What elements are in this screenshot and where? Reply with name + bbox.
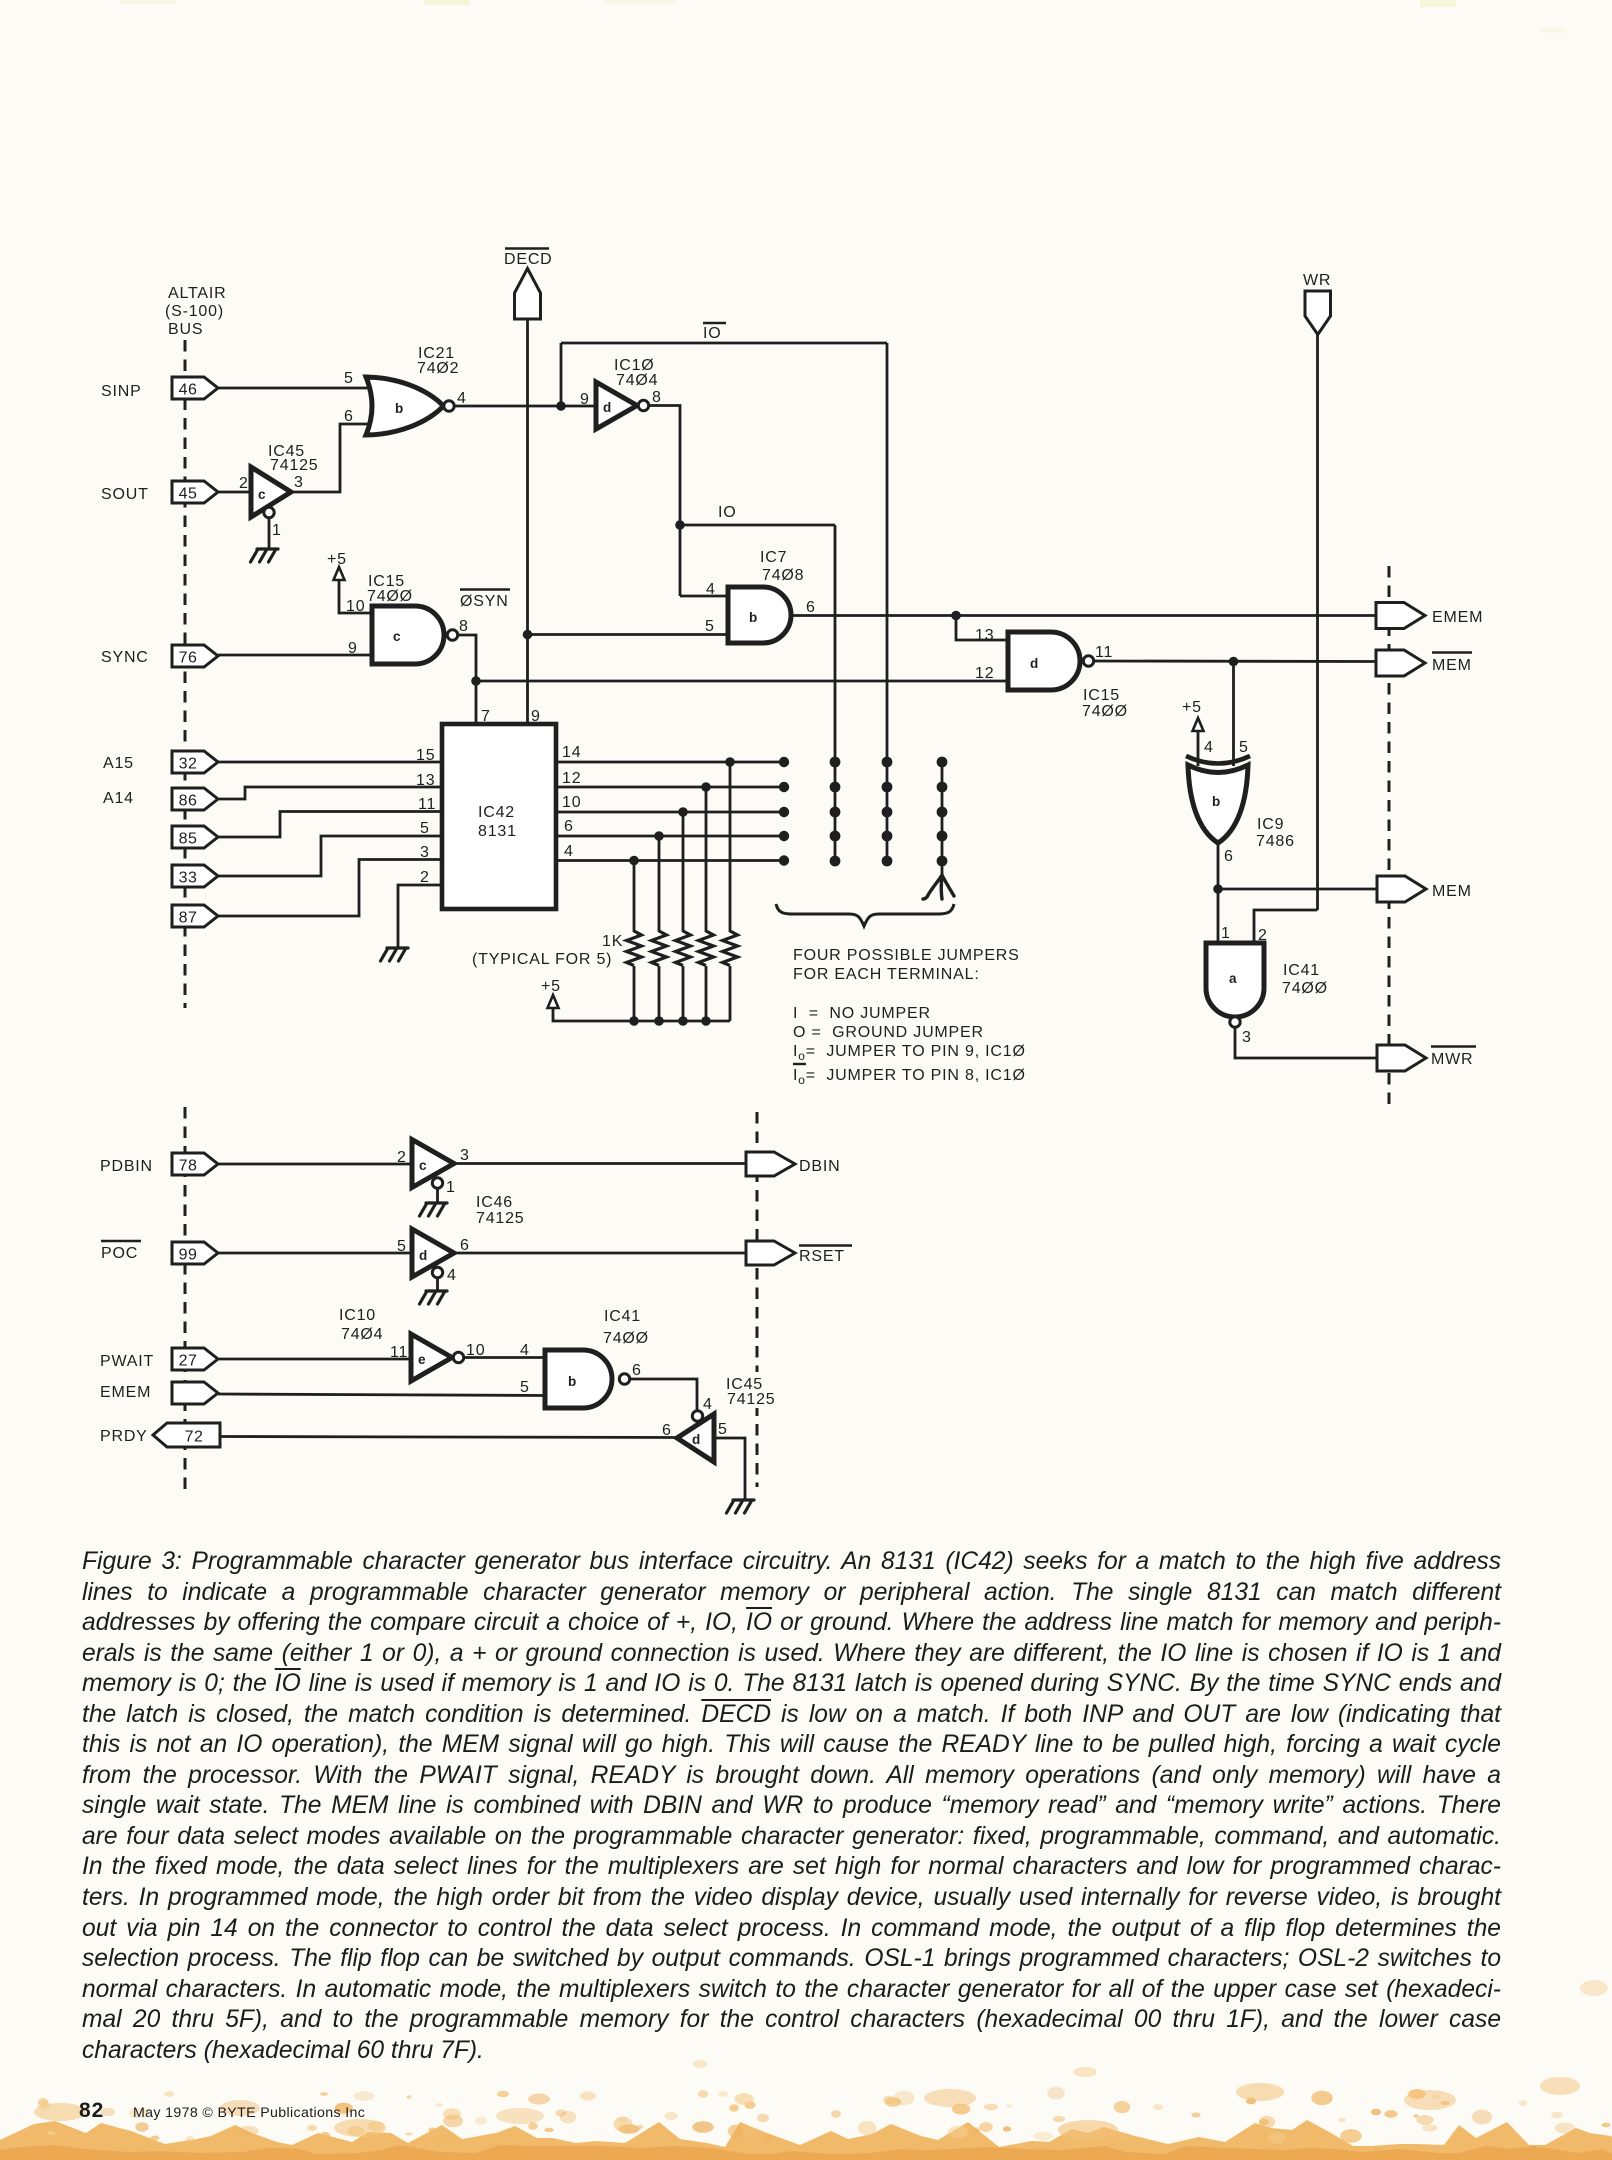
svg-text:d: d [419, 1248, 427, 1263]
svg-text:8131: 8131 [478, 823, 517, 840]
IC15d pin 11 label [1095, 644, 1113, 661]
svg-text:IC42: IC42 [478, 804, 515, 821]
IC41a pin 3 label [1242, 1029, 1252, 1046]
svg-text:74Ø2: 74Ø2 [417, 360, 459, 377]
svg-text:74Ø8: 74Ø8 [762, 567, 804, 584]
svg-text:BUS: BUS [168, 321, 203, 338]
IC46c pin 1 label [446, 1179, 456, 1196]
svg-text:6: 6 [632, 1362, 642, 1379]
IC42 pin 13 label [416, 772, 435, 789]
svg-text:45: 45 [179, 486, 198, 503]
svg-text:PWAIT: PWAIT [100, 1353, 154, 1370]
node IO-bar label [703, 323, 726, 342]
wire R5 lower lead [729, 966, 732, 1021]
IC15c pin 10 label [346, 598, 365, 615]
svg-text:4: 4 [564, 843, 574, 860]
node +5 label (IC9) [1182, 699, 1202, 716]
svg-text:MEM: MEM [1432, 657, 1472, 674]
junction MEM node [1213, 884, 1223, 894]
node jumper legend I [793, 1005, 931, 1022]
ground fork (jumper column) [923, 875, 954, 899]
wire R1 riser [633, 861, 636, 933]
node IO label [718, 504, 737, 521]
ground under 8131 pin2 [381, 948, 409, 961]
IC41b label [603, 1308, 649, 1347]
svg-text:WR: WR [1303, 272, 1331, 289]
junction OSYN node [471, 676, 481, 686]
svg-text:6: 6 [460, 1237, 470, 1254]
svg-text:4: 4 [703, 1396, 713, 1413]
wire PWAIT to IC10e [218, 1358, 412, 1361]
node OSYN-bar label [460, 590, 510, 611]
junction R1 top [629, 856, 639, 866]
svg-text:3: 3 [460, 1147, 470, 1164]
wire EMEM line (IC7 out) [791, 614, 1376, 617]
resistor R4 1K [699, 931, 714, 966]
junction R3 top [678, 807, 688, 817]
wire 87 to 8131 pin3 [218, 860, 444, 917]
svg-text:5: 5 [420, 820, 430, 837]
IC15d pin 12 label [975, 665, 994, 682]
junction R4 top [701, 782, 711, 792]
svg-text:IC41: IC41 [604, 1308, 641, 1325]
IC45d enable bubble [692, 1411, 702, 1421]
svg-text:+5: +5 [1182, 699, 1202, 716]
svg-text:IC46: IC46 [476, 1194, 513, 1211]
svg-text:8: 8 [459, 618, 469, 635]
IC42 pin 4 label [564, 843, 574, 860]
IC21 pin 5 label [344, 370, 354, 387]
connector EMEM output [1376, 603, 1425, 629]
svg-text:8: 8 [652, 389, 662, 406]
node A15 label [103, 755, 134, 772]
svg-text:5: 5 [705, 618, 715, 635]
svg-text:74Ø4: 74Ø4 [341, 1326, 383, 1343]
IC21 pin 4 label [457, 390, 467, 407]
power +5 arrow (IC9) [1193, 718, 1204, 731]
terminal 99 (POC) [172, 1242, 218, 1264]
wire R3 lower lead [682, 966, 685, 1021]
junction pin10 end dot [779, 807, 789, 817]
ground under IC46c [420, 1203, 448, 1216]
svg-text:PRDY: PRDY [100, 1428, 148, 1445]
IC9 pin 5 label [1239, 739, 1249, 756]
wire MEM-bar branch to IC9 pin5 [1232, 662, 1235, 767]
nand-gate U-IC15d 7400 [1008, 632, 1080, 690]
wire to IC7 pin4 [680, 595, 729, 598]
svg-text:5: 5 [520, 1379, 530, 1396]
wire A15 to 8131 pin15 [218, 761, 444, 764]
svg-text:5: 5 [344, 370, 354, 387]
junction pin4 end dot [779, 855, 789, 865]
svg-text:5: 5 [718, 1421, 728, 1438]
svg-text:2: 2 [397, 1149, 407, 1166]
svg-text:DBIN: DBIN [799, 1158, 840, 1175]
node jumper legend O [793, 1024, 984, 1041]
IC9 label [1256, 816, 1295, 850]
wire +5 to IC15c pin10 [339, 580, 373, 613]
wire 8131 pin4 line [556, 859, 784, 862]
svg-text:SINP: SINP [101, 383, 142, 400]
svg-text:PDBIN: PDBIN [100, 1158, 153, 1175]
node MWR output label [1431, 1047, 1476, 1069]
IC46d pin 6 label [460, 1237, 470, 1254]
svg-text:13: 13 [416, 772, 435, 789]
svg-text:27: 27 [179, 1353, 198, 1370]
IC42 pin 12 label [562, 770, 581, 787]
buffer U-IC45c 74125 [251, 467, 291, 517]
wire jumper column IO dots [830, 757, 841, 867]
svg-text:e: e [418, 1352, 426, 1367]
svg-text:86: 86 [179, 793, 198, 810]
power +5 arrow (IC15c) [334, 567, 345, 580]
node 1K value label [602, 933, 623, 950]
svg-text:33: 33 [179, 870, 198, 887]
wire EMEM branch to IC15d pin13 [956, 616, 1009, 641]
IC42 pin 5 label [420, 820, 430, 837]
IC45d pin 4 label [703, 1396, 713, 1413]
junction MEM-bar to IC9 pin5 [1229, 657, 1239, 667]
svg-text:74ØØ: 74ØØ [1082, 703, 1128, 720]
wire IC45c output to IC21 pin6 [291, 424, 371, 492]
svg-text:74125: 74125 [270, 457, 319, 474]
IC42 pin 7 label [481, 708, 491, 725]
svg-text:4: 4 [457, 390, 467, 407]
wire 8131 pin14 line [556, 761, 784, 764]
svg-text:74125: 74125 [727, 1391, 776, 1408]
wire 8131 pin10 line [556, 811, 784, 814]
svg-text:A15: A15 [103, 755, 134, 772]
IC41a pin 1 label [1221, 925, 1231, 942]
node DECD label [504, 249, 553, 269]
svg-text:MEM: MEM [1432, 883, 1472, 900]
wire OSYN to 8131 pin7 [475, 681, 478, 724]
node SOUT label [101, 486, 149, 503]
buffer U-IC46d 74125 [412, 1229, 454, 1277]
connector MWR output [1377, 1045, 1426, 1071]
svg-text:b: b [1212, 794, 1220, 809]
inverter U-IC10e 7404 [411, 1334, 452, 1381]
IC42 pin 2 label [420, 869, 430, 886]
svg-text:2: 2 [1258, 927, 1268, 944]
connector MEM-bar output [1376, 650, 1425, 676]
svg-text:(TYPICAL FOR 5): (TYPICAL FOR 5) [472, 951, 612, 968]
node +5 label (pullups) [541, 978, 561, 995]
resistor R1 1K [627, 931, 642, 966]
wire IC41a output to MWR [1235, 1028, 1377, 1059]
junction pin6 end dot [779, 831, 789, 841]
IC42 pin 6 label [564, 818, 574, 835]
svg-text:d: d [692, 1432, 700, 1447]
junction pin14 end dot [779, 757, 789, 767]
wire PDBIN to IC46c [218, 1163, 413, 1166]
junction rail R4 [701, 1016, 711, 1026]
svg-text:1: 1 [272, 522, 282, 539]
svg-text:1: 1 [446, 1179, 456, 1196]
svg-text:ØSYN: ØSYN [460, 593, 509, 610]
wire R5 riser [729, 762, 732, 932]
wire IC45d output to ground [714, 1438, 745, 1500]
and-gate U-IC7b 7408 [728, 587, 791, 643]
brace four jumpers [776, 904, 954, 926]
svg-text:6: 6 [344, 408, 354, 425]
buffer U-IC46c 74125 [412, 1140, 454, 1188]
junction R2 top [654, 831, 664, 841]
node EMEM input label [100, 1384, 151, 1401]
wire IO horizontal [680, 524, 835, 527]
svg-text:85: 85 [179, 831, 198, 848]
wire jumper column ground dots [937, 757, 948, 867]
svg-text:2: 2 [420, 869, 430, 886]
wire IC45c enable to ground [268, 518, 271, 550]
svg-text:4: 4 [520, 1342, 530, 1359]
wire bus dashed boundary lower-left [184, 1107, 187, 1489]
IC45d pin 5 label [718, 1421, 728, 1438]
ground under IC46d [420, 1291, 448, 1304]
svg-text:74ØØ: 74ØØ [1282, 980, 1328, 997]
IC10e pin 11 label [390, 1344, 408, 1361]
ground under IC45d [727, 1500, 755, 1513]
wire POC to IC46d [218, 1252, 413, 1255]
svg-text:9: 9 [348, 640, 358, 657]
ground under IC45c [251, 549, 279, 562]
wire SOUT to IC45c input [218, 491, 252, 494]
svg-text:14: 14 [562, 744, 581, 761]
IC15d output bubble [1083, 656, 1093, 666]
IC15d pin 13 label [975, 627, 994, 644]
nand-gate U-IC41a 7400 [1206, 943, 1264, 1017]
svg-text:3: 3 [420, 844, 430, 861]
IC46d enable bubble [432, 1267, 442, 1277]
comparator U-IC42 8131 [442, 724, 556, 909]
svg-text:4: 4 [447, 1267, 457, 1284]
connector DBIN output [746, 1152, 795, 1176]
IC9 pin 4 label [1204, 739, 1214, 756]
node TYPICAL FOR 5 label [472, 951, 612, 968]
svg-text:15: 15 [416, 747, 435, 764]
svg-text:4: 4 [1204, 739, 1214, 756]
svg-text:99: 99 [179, 1247, 198, 1264]
terminal 85 [172, 826, 218, 848]
svg-text:11: 11 [418, 796, 436, 813]
junction rail R3 [678, 1016, 688, 1026]
svg-text:c: c [419, 1158, 427, 1173]
svg-text:6: 6 [564, 818, 574, 835]
terminal 45 (SOUT) [172, 481, 218, 503]
terminal 72 (PRDY) [153, 1423, 220, 1447]
IC10d label [614, 357, 658, 389]
IC10 label (lower) [339, 1307, 383, 1343]
svg-text:74ØØ: 74ØØ [603, 1330, 649, 1347]
svg-text:POC: POC [101, 1245, 138, 1262]
svg-text:78: 78 [179, 1158, 198, 1175]
wire DECD vertical to 8131 pin9 [526, 319, 529, 722]
svg-text:4: 4 [706, 581, 716, 598]
node MEM output label [1432, 883, 1472, 900]
node jumper legend Io [793, 1043, 1026, 1063]
IC45c pin 1 label [272, 522, 282, 539]
svg-text:74ØØ: 74ØØ [367, 588, 413, 605]
wire WR vertical [1316, 335, 1319, 911]
IC41b pin 6 label [632, 1362, 642, 1379]
IC42 pin 10 label [562, 794, 581, 811]
IC46 label [476, 1194, 525, 1227]
IC10d pin 8 label [652, 389, 662, 406]
svg-text:5: 5 [1239, 739, 1249, 756]
wire A14 to 8131 pin13 [218, 787, 444, 799]
wire peripheral dashed boundary lower-right [756, 1112, 759, 1487]
terminal 32 (A15) [172, 751, 218, 773]
wire DECD to IC7 pin5 [528, 633, 730, 636]
resistor R2 1K [652, 931, 667, 966]
svg-text:c: c [258, 487, 266, 502]
wire R2 riser [658, 836, 661, 932]
wire R2 lower lead [658, 966, 661, 1021]
wire jumper column IO-bar dots [882, 757, 893, 867]
wire IC9 output [1217, 843, 1220, 889]
svg-text:a: a [1229, 971, 1237, 986]
svg-text:b: b [568, 1374, 576, 1389]
terminal 46 (SINP) [172, 377, 218, 399]
wire 8131 pin6 line [556, 835, 784, 838]
svg-text:1: 1 [1221, 925, 1231, 942]
IC46d pin 5 label [397, 1238, 407, 1255]
svg-text:IC41: IC41 [1283, 962, 1320, 979]
IC42 pin 9 label [531, 708, 541, 725]
wire MEM to IC41a pin1 [1217, 889, 1220, 945]
svg-text:I = NO JUMPER: I = NO JUMPER [793, 1005, 931, 1022]
wire PRDY line [220, 1437, 678, 1438]
wire R4 riser [705, 787, 708, 932]
svg-text:b: b [749, 610, 757, 625]
node FOUR POSSIBLE JUMPERS label [793, 947, 1020, 983]
junction IO tap [675, 520, 685, 530]
junction DECD to IC7 pin5 [523, 630, 533, 640]
connector WR (down arrow) [1305, 291, 1331, 335]
svg-text:b: b [395, 401, 403, 416]
terminal 27 (PWAIT) [172, 1348, 218, 1370]
connector MEM output [1377, 876, 1426, 902]
svg-text:IO: IO [718, 504, 737, 521]
inverter U-IC10d 7404 [596, 382, 637, 429]
svg-text:O = GROUND JUMPER: O = GROUND JUMPER [793, 1024, 984, 1041]
wire R1 lower lead [633, 966, 636, 1021]
svg-text:SOUT: SOUT [101, 486, 149, 503]
junction IO-bar tap [556, 401, 566, 411]
IC7 pin 6 label [806, 599, 816, 616]
wire peripheral dashed boundary upper-right [1388, 566, 1391, 1110]
wire RSET line [454, 1252, 747, 1255]
svg-text:11: 11 [390, 1344, 408, 1361]
node DBIN label [799, 1158, 840, 1175]
svg-text:RSET: RSET [799, 1248, 845, 1265]
svg-text:(S-100): (S-100) [165, 303, 224, 320]
svg-text:IO: IO [703, 325, 722, 342]
wire EMEM to IC41b pin5 [218, 1394, 546, 1396]
svg-text:6: 6 [1224, 848, 1234, 865]
IC10e pin 10 label [466, 1342, 485, 1359]
wire MEM line [1218, 888, 1377, 891]
node SYNC label [101, 649, 149, 666]
IC46d pin 4 label [447, 1267, 457, 1284]
terminal 86 (A14) [172, 788, 218, 810]
node SINP label [101, 383, 142, 400]
svg-text:ALTAIR: ALTAIR [168, 285, 226, 302]
terminal 87 [172, 905, 218, 927]
svg-text:EMEM: EMEM [100, 1384, 151, 1401]
IC41a output bubble [1230, 1017, 1240, 1027]
svg-text:13: 13 [975, 627, 994, 644]
IC7 pin 5 label [705, 618, 715, 635]
IC10d output bubble [638, 400, 648, 410]
svg-text:IC7: IC7 [760, 549, 787, 566]
IC41b pin 4 label [520, 1342, 530, 1359]
connector DECD (up arrow) [515, 269, 541, 320]
wire IC41b output to IC45d pin4 [630, 1379, 697, 1410]
IC15d label [1082, 687, 1128, 720]
wire 8131 pin12 line [556, 786, 784, 789]
svg-text:IC10: IC10 [339, 1307, 376, 1324]
node MEM-bar output label [1432, 653, 1472, 675]
IC45c pin 2 label [239, 475, 249, 492]
wire SYNC to IC15c pin9 [218, 654, 374, 657]
svg-text:7486: 7486 [1256, 833, 1295, 850]
wire 8131 pin2 to ground [398, 885, 444, 948]
IC41a pin 2 label [1258, 927, 1268, 944]
node PDBIN label [100, 1158, 153, 1175]
IC45c pin 3 label [294, 474, 304, 491]
svg-text:+5: +5 [327, 551, 347, 568]
junction rail R2 [654, 1016, 664, 1026]
IC45c label [268, 443, 319, 474]
IC21 pin 6 label [344, 408, 354, 425]
nand-gate U-IC41b 7400 [545, 1350, 612, 1408]
IC9 pin 6 label [1224, 848, 1234, 865]
wire IC15c output [458, 635, 476, 681]
power +5 arrow (pullups) [548, 995, 559, 1008]
junction rail R1 [629, 1016, 639, 1026]
wire +5 rail [553, 1008, 730, 1021]
IC7 label [760, 549, 804, 584]
svg-text:9: 9 [531, 708, 541, 725]
svg-text:32: 32 [179, 756, 198, 773]
IC7 pin 4 label [706, 581, 716, 598]
IC15c pin 8 label [459, 618, 469, 635]
svg-text:11: 11 [1095, 644, 1113, 661]
node ALTAIR S-100 BUS label [165, 285, 226, 338]
svg-text:2: 2 [239, 475, 249, 492]
node RSET-bar label [799, 1246, 852, 1266]
wire +5 to IC9 pin4 [1197, 731, 1200, 766]
svg-text:A14: A14 [103, 790, 134, 807]
IC21b output bubble [444, 401, 454, 411]
svg-text:10: 10 [562, 794, 581, 811]
svg-text:IC9: IC9 [1257, 816, 1284, 833]
IC46c pin 3 label [460, 1147, 470, 1164]
IC46c enable bubble [432, 1178, 442, 1188]
svg-text:FOR EACH TERMINAL:: FOR EACH TERMINAL: [793, 966, 980, 983]
wire IC21 output (DECD net) to IC10d input [455, 405, 597, 408]
wire bus dashed boundary upper-left [184, 340, 187, 1008]
node A14 label [103, 790, 134, 807]
node EMEM output label [1432, 609, 1483, 626]
svg-text:76: 76 [179, 650, 198, 667]
wire IC46d enable to ground [436, 1278, 439, 1292]
svg-text:EMEM: EMEM [1432, 609, 1483, 626]
node PWAIT label [100, 1353, 154, 1370]
IC41b pin 5 label [520, 1379, 530, 1396]
svg-text:SYNC: SYNC [101, 649, 149, 666]
